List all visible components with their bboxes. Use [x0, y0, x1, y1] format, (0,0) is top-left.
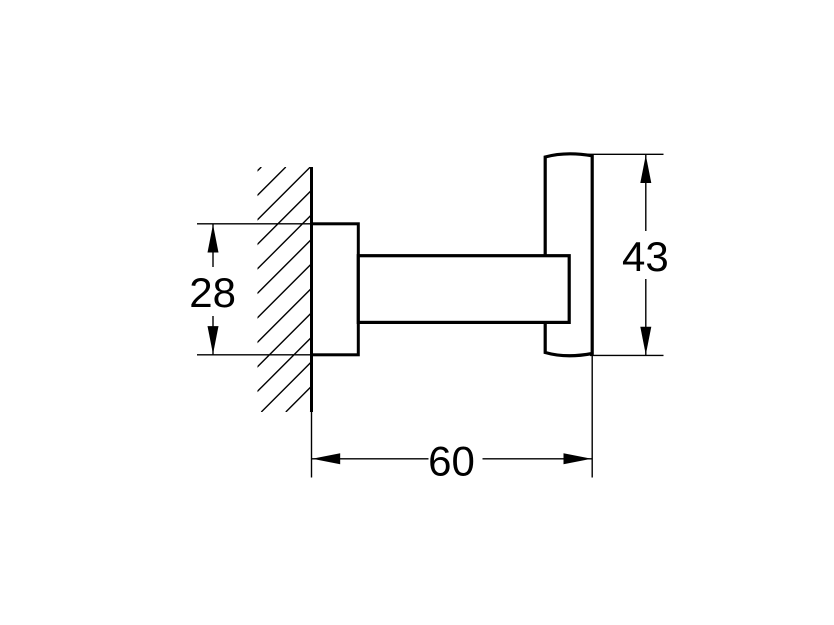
dim 43 line lower segment — [645, 279, 647, 355]
wall hatch — [16, 167, 555, 412]
wall line — [310, 167, 313, 412]
svg-text:43: 43 — [622, 233, 669, 280]
dim 43 line upper segment — [645, 154, 647, 231]
dim 60 line left segment — [312, 458, 429, 460]
dim 28 line upper segment — [212, 224, 214, 267]
svg-text:28: 28 — [189, 269, 236, 316]
hook arm — [358, 256, 569, 323]
svg-text:60: 60 — [428, 437, 475, 484]
dim 43 arrow up — [640, 155, 651, 183]
dim 43 arrow down — [640, 327, 651, 355]
dim 43 extension line bottom — [590, 354, 664, 356]
dim 60 extension line right — [591, 356, 593, 478]
dim 28 extension line top — [197, 223, 358, 225]
hook end cap — [545, 154, 592, 356]
dim 43 extension line top — [572, 153, 664, 155]
dim 60 arrow left — [312, 453, 340, 464]
wall plate — [312, 224, 359, 355]
dim 60 arrow right — [564, 453, 592, 464]
dim 60 line right segment — [483, 458, 593, 460]
dim 60 extension line left — [311, 411, 313, 478]
dim 28 arrow down — [208, 326, 219, 354]
dim 28 extension line bottom — [197, 354, 358, 356]
dim 28 line lower segment — [212, 316, 214, 355]
dim 28 arrow up — [208, 225, 219, 253]
